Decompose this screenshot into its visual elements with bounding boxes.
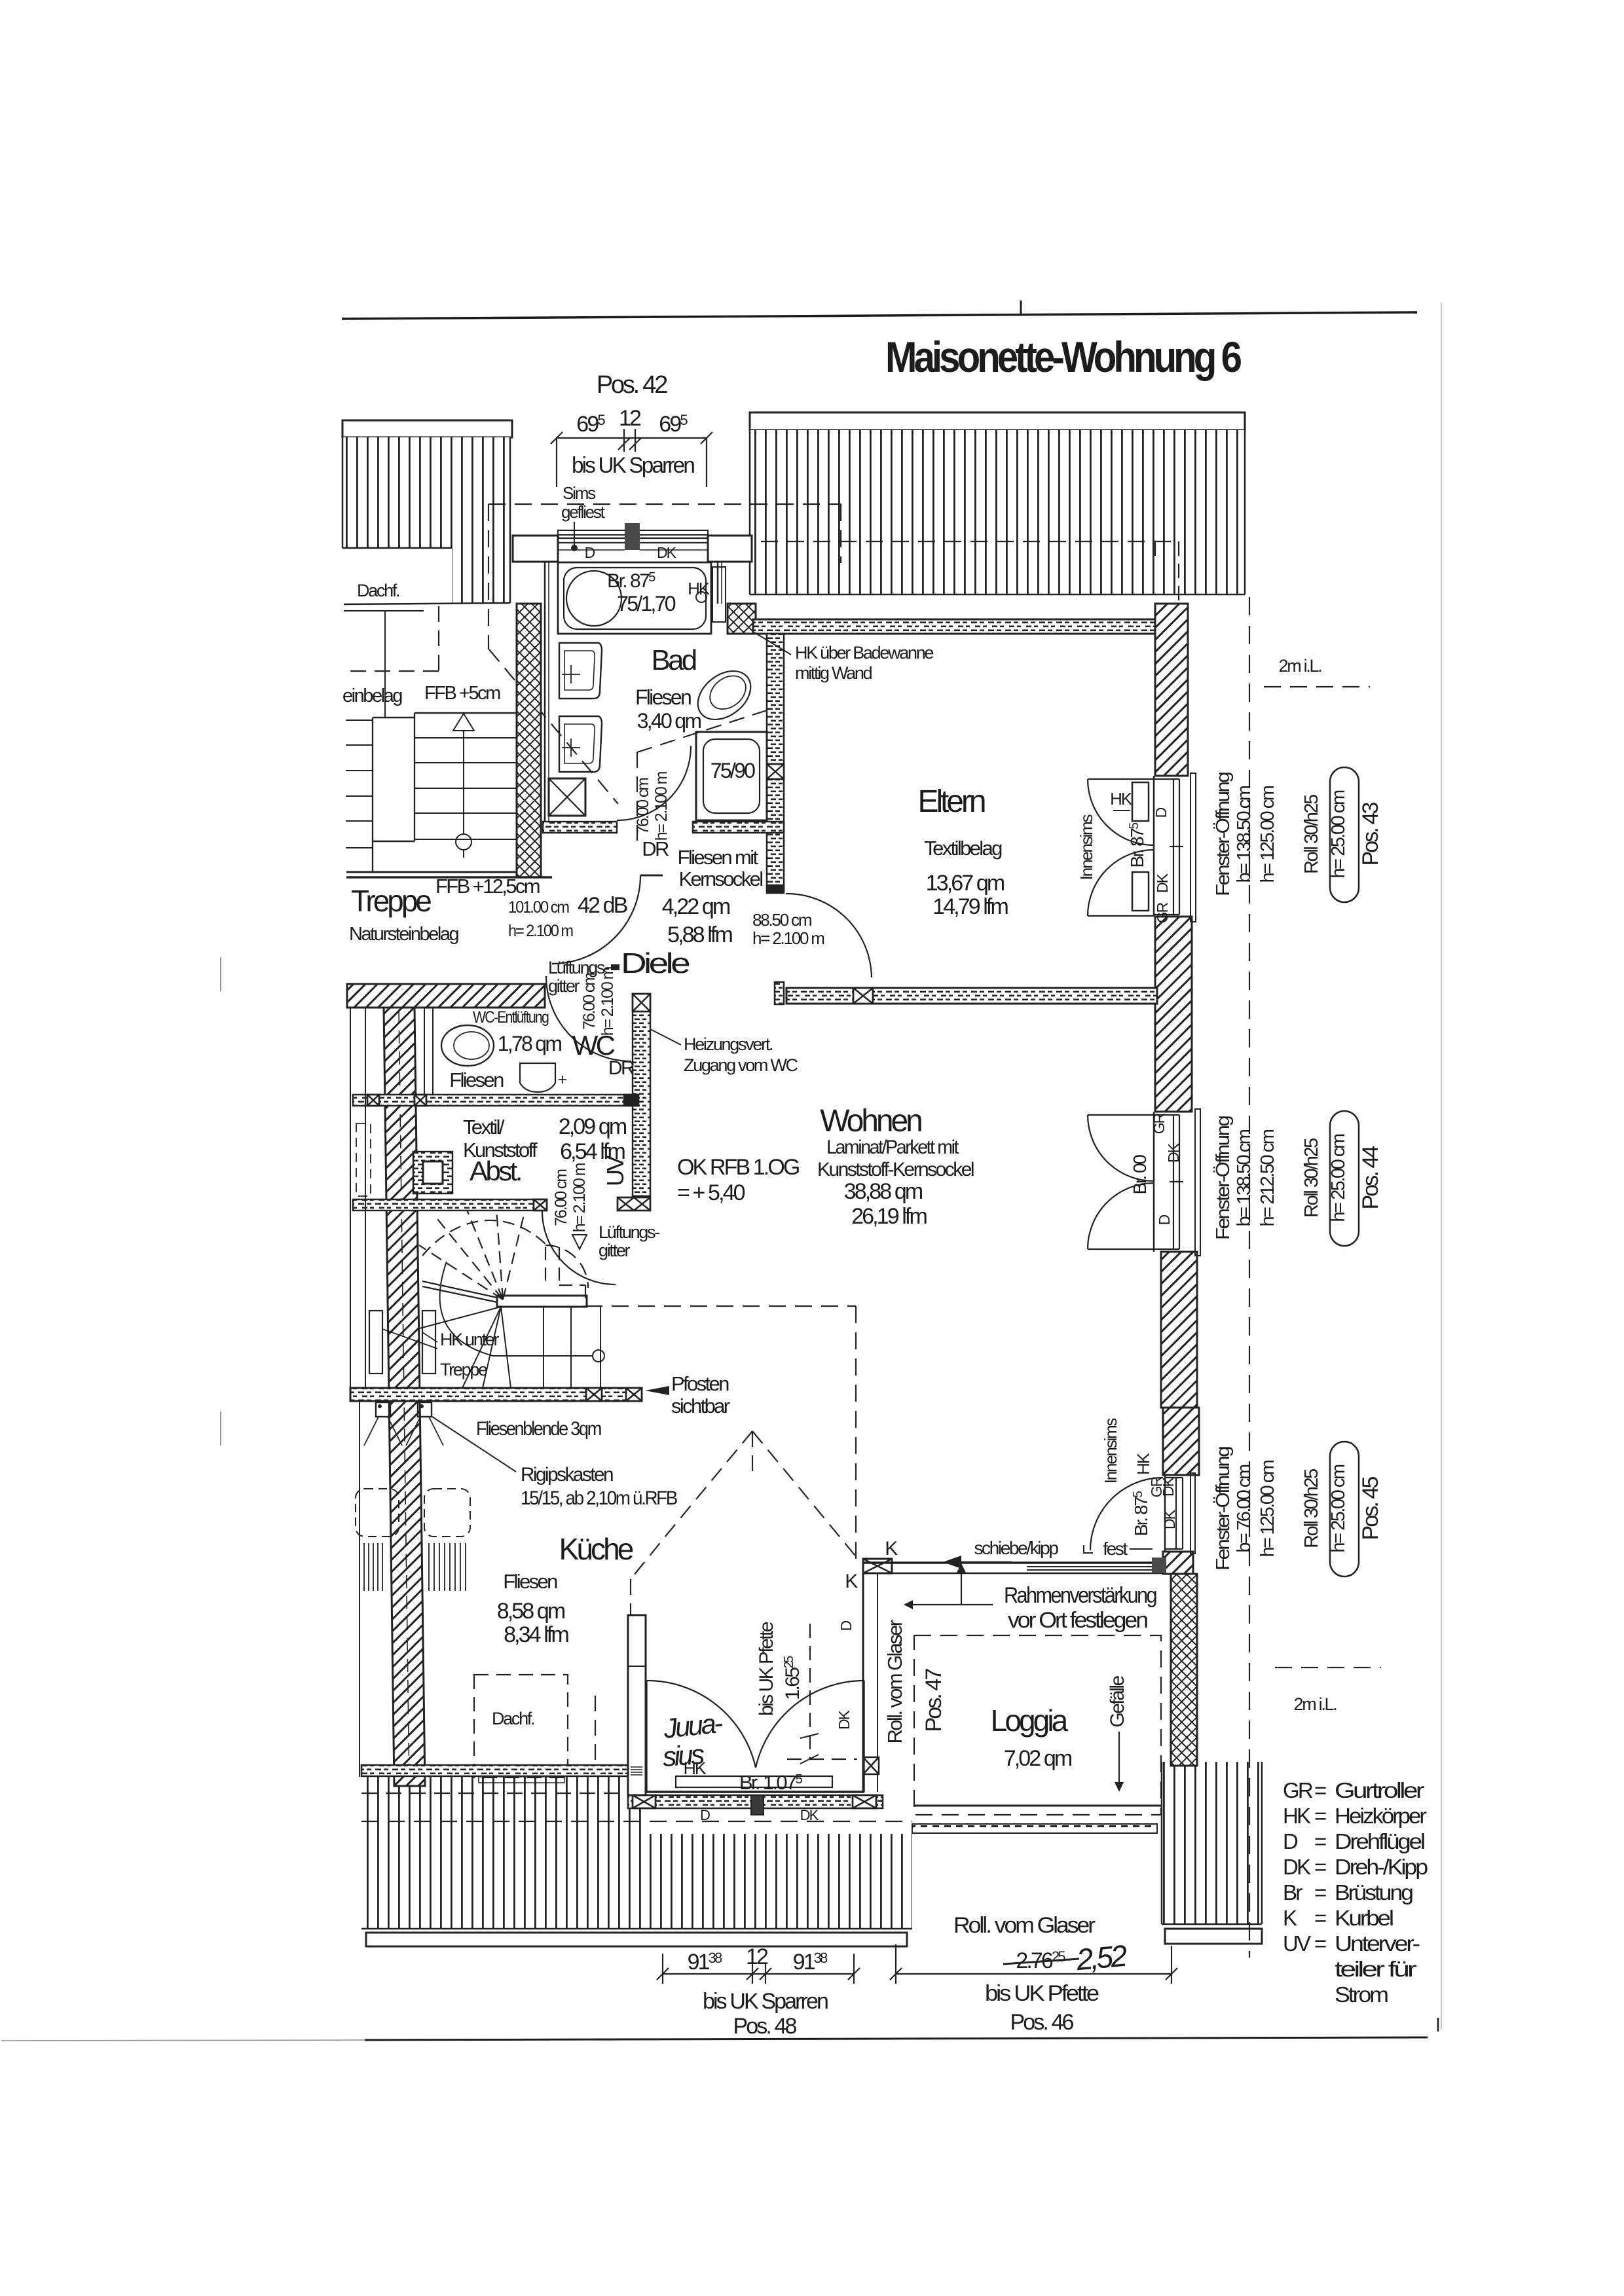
svg-text:Pos. 46: Pos. 46 — [1010, 2010, 1073, 2035]
wall stub left of Eltern door — [775, 982, 784, 1004]
svg-text:Fliesenblende 3qm: Fliesenblende 3qm — [476, 1418, 601, 1440]
WC left wall — [424, 1008, 425, 1095]
bathtub HK radiator — [712, 567, 726, 622]
svg-text:FFB +5cm: FFB +5cm — [424, 683, 500, 704]
bathtub outer — [558, 562, 711, 634]
svg-text:K: K — [885, 1538, 898, 1559]
roof area top-right: header bar — [750, 412, 1245, 430]
neighbour wall strips left — [350, 1008, 351, 1388]
svg-text:DK: DK — [657, 544, 677, 561]
svg-text:Küche: Küche — [559, 1532, 633, 1566]
wall right corner at Loggia — [1163, 1552, 1193, 1574]
dashed Loggia floor outline — [914, 1635, 1161, 1815]
svg-text:Loggia: Loggia — [991, 1704, 1069, 1738]
svg-text:Heizkörper: Heizkörper — [1335, 1804, 1427, 1828]
balcony door frame lines — [647, 1795, 864, 1796]
svg-text:teiler für: teiler für — [1335, 1957, 1417, 1981]
svg-text:76.00 cm: 76.00 cm — [634, 778, 652, 835]
svg-text:13,67 qm: 13,67 qm — [926, 871, 1005, 896]
svg-text:88.50 cm: 88.50 cm — [752, 910, 811, 930]
svg-text:Natursteinbelag: Natursteinbelag — [349, 924, 458, 945]
stairs lower winder treads — [417, 1307, 511, 1388]
svg-text:Dachf.: Dachf. — [492, 1709, 534, 1728]
svg-text:h= 125.00 cm: h= 125.00 cm — [1257, 786, 1278, 883]
wall hatched band above WC — [347, 984, 545, 1008]
Loggia sliding window glass — [1027, 1566, 1152, 1567]
dashed roof slope diagonals into Bad — [489, 649, 618, 804]
svg-text:Roll 30/h25: Roll 30/h25 — [1301, 795, 1322, 874]
svg-text:=: = — [1314, 1931, 1326, 1956]
svg-text:Eltern: Eltern — [918, 784, 985, 819]
wall right exterior between windows — [1155, 917, 1192, 1112]
window Pos 45 fest pane arc — [1090, 1478, 1163, 1550]
roof area bottom-left: vertical battens under kitchen — [361, 1777, 644, 1929]
svg-text:h= 2.100 m: h= 2.100 m — [508, 922, 573, 940]
svg-text:=: = — [1314, 1778, 1326, 1802]
sink WC — [520, 1063, 555, 1092]
wall Eltern top insulated band — [753, 619, 1155, 634]
svg-text:Gefälle: Gefälle — [1107, 1676, 1128, 1728]
svg-text:D: D — [1283, 1829, 1298, 1853]
svg-text:gefliest: gefliest — [561, 502, 606, 522]
stair bottom wall — [346, 871, 517, 873]
roof area top-right: vertical battens — [750, 430, 1245, 594]
svg-text:76.00 cm: 76.00 cm — [552, 1169, 570, 1226]
svg-text:2,09 qm: 2,09 qm — [559, 1114, 627, 1139]
svg-text:Textilbelag: Textilbelag — [924, 837, 1002, 860]
svg-text:h= 25.00 cm: h= 25.00 cm — [1328, 1465, 1349, 1553]
toilet Bad — [688, 661, 760, 729]
dashed 2m i.L. line top right — [1264, 686, 1370, 687]
svg-text:1,78 qm: 1,78 qm — [498, 1032, 562, 1055]
window Pos 44 Wohnen: frame — [1153, 1112, 1155, 1252]
svg-text:mittig Wand: mittig Wand — [795, 663, 872, 683]
Küche/Loggia wall — [862, 1573, 864, 1792]
window Pos 44 casement arcs — [1088, 1115, 1154, 1181]
svg-text:Pos. 48: Pos. 48 — [733, 2014, 796, 2039]
svg-text:DK: DK — [1160, 1476, 1177, 1497]
svg-text:Lüftungs-: Lüftungs- — [599, 1222, 659, 1242]
svg-text:8,58 qm: 8,58 qm — [497, 1599, 565, 1624]
svg-text:=: = — [1314, 1880, 1326, 1904]
stairs stringer to wall — [422, 1281, 497, 1298]
balcony door threshold — [646, 1791, 864, 1793]
svg-text:UV: UV — [602, 1156, 629, 1186]
svg-text:gitter: gitter — [599, 1241, 631, 1260]
Loggia top wall — [863, 1561, 1163, 1564]
svg-text:Treppe: Treppe — [351, 884, 431, 918]
stairs direction arrow — [463, 730, 464, 834]
stairs upper flight outline — [372, 718, 373, 872]
svg-text:bis UK Pfette: bis UK Pfette — [756, 1622, 777, 1716]
wall right exterior below Wohnen window — [1161, 1252, 1197, 1408]
svg-text:Innensims: Innensims — [1077, 814, 1096, 880]
svg-text:Wohnen: Wohnen — [820, 1104, 921, 1139]
svg-text:Roll 30/h25: Roll 30/h25 — [1301, 1469, 1322, 1548]
svg-text:26,19 lfm: 26,19 lfm — [851, 1204, 927, 1229]
svg-text:DK: DK — [1165, 1142, 1182, 1163]
svg-text:14,79 lfm: 14,79 lfm — [932, 894, 1008, 919]
svg-text:Fenster-Öffnung: Fenster-Öffnung — [1213, 1447, 1234, 1571]
svg-text:Br. 00: Br. 00 — [1130, 1155, 1150, 1195]
stairs lower flight landing bar — [497, 1296, 587, 1307]
svg-text:15/15, ab 2,10m ü.RFB: 15/15, ab 2,10m ü.RFB — [521, 1487, 677, 1509]
svg-text:fest: fest — [1103, 1539, 1128, 1559]
UV box in Abst — [413, 1152, 452, 1194]
wall Küche bottom insulated — [361, 1765, 645, 1776]
kitchen hob dashed right — [424, 1489, 470, 1537]
svg-text:Br. 1.075: Br. 1.075 — [739, 1771, 803, 1794]
svg-text:Fliesen: Fliesen — [449, 1068, 504, 1091]
svg-text:Br. 875: Br. 875 — [1127, 823, 1147, 868]
svg-text:Brüstung: Brüstung — [1335, 1880, 1413, 1904]
svg-text:DK: DK — [1283, 1855, 1311, 1879]
svg-text:D: D — [838, 1620, 855, 1631]
svg-text:b= 138.50 cm: b= 138.50 cm — [1234, 1129, 1255, 1226]
svg-text:Unterver-: Unterver- — [1335, 1931, 1420, 1956]
dashed long dimension line right (b=...) — [1249, 597, 1250, 1958]
roof bottom-right: footer bar — [1165, 1929, 1262, 1944]
roof area top-left: vertical battens right part — [452, 437, 510, 603]
svg-text:Rahmenverstärkung: Rahmenverstärkung — [1004, 1583, 1156, 1608]
svg-text:DK: DK — [1161, 1509, 1178, 1529]
wall Abst bottom insulated — [353, 1199, 547, 1211]
svg-text:DR: DR — [642, 837, 669, 860]
wall left exterior leaning hatched — [384, 1008, 425, 1786]
svg-text:=: = — [1314, 1855, 1326, 1879]
svg-text:Bad: Bad — [651, 644, 695, 676]
Loggia HK radiator — [676, 1776, 832, 1787]
wall Fliesenblende insulated — [350, 1388, 642, 1401]
shaft box with X in Bad — [549, 778, 585, 816]
svg-text:h= 25.00 cm: h= 25.00 cm — [1328, 790, 1349, 879]
wall right exterior above Pos45 window — [1163, 1408, 1199, 1475]
svg-text:b= 138.50 cm: b= 138.50 cm — [1234, 786, 1255, 883]
svg-text:38,88 qm: 38,88 qm — [844, 1179, 923, 1204]
wall WC/Abst separating insulated — [353, 1095, 638, 1106]
dimension Pos 42 top — [557, 437, 707, 439]
wall Bad bottom insulated right under shower — [693, 822, 784, 833]
svg-text:Drehflügel: Drehflügel — [1335, 1829, 1425, 1853]
faint scan line right — [1441, 302, 1442, 2030]
window Pos 43 HK radiator top — [1132, 782, 1149, 821]
neighbour area lines top-left — [344, 610, 424, 611]
svg-text:bis UK Sparren: bis UK Sparren — [572, 453, 694, 478]
roof area bottom-left: battens under balcony door — [635, 1834, 912, 1929]
svg-text:Sims: Sims — [563, 483, 596, 503]
wall corner block Bad/Eltern crosshatched — [728, 604, 756, 634]
dashed door dimension line Bad — [637, 752, 638, 845]
chimney pillar left of balcony door — [628, 1615, 646, 1795]
svg-text:=: = — [1314, 1906, 1326, 1930]
svg-text:GR: GR — [1283, 1778, 1313, 1802]
svg-text:OK RFB 1.OG: OK RFB 1.OG — [677, 1155, 799, 1180]
kitchen hob dashed left — [356, 1489, 399, 1537]
svg-text:Kurbel: Kurbel — [1335, 1906, 1393, 1930]
svg-text:D: D — [585, 544, 595, 561]
post visible left — [376, 1402, 390, 1417]
Bad room right wall line — [717, 562, 719, 604]
roof bottom-left: footer bar — [366, 1933, 907, 1946]
svg-text:D: D — [1156, 1214, 1173, 1225]
door arc Abst — [542, 1211, 616, 1285]
svg-text:76.00 cm: 76.00 cm — [580, 973, 599, 1030]
svg-text:Fliesen: Fliesen — [635, 685, 691, 709]
post visible right — [418, 1402, 432, 1417]
svg-text:Kernsockel: Kernsockel — [678, 867, 762, 890]
dashed cupboard outline Abst — [356, 1123, 371, 1196]
svg-text:Juua-: Juua- — [661, 1707, 724, 1744]
svg-text:K: K — [845, 1571, 858, 1592]
dashed stair well outline — [545, 1245, 588, 1288]
svg-text:D: D — [700, 1807, 710, 1823]
svg-text:h= 2.100 m: h= 2.100 m — [652, 771, 671, 841]
tick on top border — [1020, 301, 1022, 316]
svg-text:h= 2.100 m: h= 2.100 m — [752, 928, 824, 948]
svg-text:= + 5,40: = + 5,40 — [677, 1180, 745, 1205]
window Bad top: outer sill — [558, 530, 708, 535]
svg-text:Fliesen: Fliesen — [503, 1570, 557, 1593]
svg-text:DR: DR — [608, 1057, 635, 1079]
dimension Pos 46 bottom right — [896, 1973, 1172, 1975]
svg-text:=: = — [1314, 1804, 1326, 1828]
Küche outer left edge — [359, 1401, 360, 1777]
dashed roof ridge lines kitchen — [752, 1431, 858, 1559]
wall left crosshatch beside Bad — [517, 604, 541, 877]
dashed corner left of stairs — [346, 606, 439, 671]
page top border line — [342, 312, 1417, 319]
svg-text:Zugang vom WC: Zugang vom WC — [684, 1055, 798, 1075]
svg-text:einbelag: einbelag — [342, 685, 402, 706]
svg-text:sichtbar: sichtbar — [671, 1394, 730, 1417]
svg-text:Textil/: Textil/ — [463, 1116, 505, 1139]
balcony door sill band — [628, 1795, 883, 1808]
svg-text:Roll 30/h25: Roll 30/h25 — [1301, 1139, 1322, 1218]
svg-text:HK: HK — [1283, 1804, 1311, 1828]
svg-text:vor Ort festlegen: vor Ort festlegen — [1008, 1608, 1147, 1633]
svg-text:HK: HK — [1110, 789, 1133, 809]
roof area top-left: header bar — [342, 420, 512, 437]
svg-text:8,34 lfm: 8,34 lfm — [504, 1622, 568, 1647]
svg-text:h= 2.100 m: h= 2.100 m — [599, 966, 617, 1036]
window Pos 45 corner: frame — [1164, 1475, 1166, 1552]
svg-text:4,22 qm: 4,22 qm — [662, 894, 730, 919]
svg-text:bis UK Sparren: bis UK Sparren — [703, 1989, 828, 2014]
svg-text:Abst.: Abst. — [470, 1156, 521, 1186]
svg-text:HK: HK — [688, 579, 710, 598]
page bottom border line — [1, 2040, 365, 2041]
bathtub inner — [564, 568, 706, 629]
svg-text:Maisonette-Wohnung 6: Maisonette-Wohnung 6 — [885, 333, 1241, 381]
wall Loggia right crosshatched — [1171, 1574, 1197, 1766]
svg-text:Br. 875: Br. 875 — [607, 570, 655, 592]
dashed 2m i.L. line bottom right — [1275, 1667, 1381, 1668]
HK marker circles Eltern window — [1113, 810, 1130, 811]
svg-text:Br: Br — [1283, 1880, 1302, 1904]
door arc apartment entry — [552, 875, 640, 964]
sink Bad upper — [559, 643, 602, 699]
svg-text:Fenster-Öffnung: Fenster-Öffnung — [1213, 773, 1234, 896]
svg-text:gitter: gitter — [548, 976, 580, 996]
HK radiators under stairs flanking wall — [369, 1311, 382, 1374]
svg-text:Gurtroller: Gurtroller — [1335, 1778, 1424, 1802]
svg-text:Diele: Diele — [621, 947, 690, 979]
svg-text:Pos. 43: Pos. 43 — [1358, 802, 1383, 866]
roof area top-left: vertical battens left part — [342, 437, 452, 548]
svg-text:UV: UV — [1283, 1931, 1311, 1956]
dashed lines crossing bottom roof — [361, 1793, 644, 1794]
svg-text:DK: DK — [1154, 873, 1171, 893]
bathtub head curve — [566, 571, 621, 626]
svg-text:3,40 qm: 3,40 qm — [637, 709, 701, 733]
svg-text:FFB +12,5cm: FFB +12,5cm — [435, 875, 540, 898]
svg-text:Innensims: Innensims — [1101, 1417, 1120, 1484]
svg-text:Fliesen mit: Fliesen mit — [678, 846, 759, 869]
door arc Bad — [617, 746, 691, 820]
toilet WC — [441, 1025, 494, 1066]
svg-text:Heizungsvert.: Heizungsvert. — [684, 1034, 773, 1054]
door arc Eltern — [786, 894, 872, 977]
svg-text:Roll. vom Glaser: Roll. vom Glaser — [883, 1620, 906, 1743]
svg-text:2,52: 2,52 — [1075, 1939, 1128, 1977]
svg-text:HK: HK — [684, 1758, 707, 1778]
svg-text:GR: GR — [1154, 902, 1171, 923]
svg-text:Pfosten: Pfosten — [671, 1372, 729, 1395]
window Bad top: Sims block — [625, 523, 640, 550]
stairs handrail curve — [440, 1262, 493, 1356]
shower tray 75/90 — [696, 732, 767, 820]
svg-text:7,02 qm: 7,02 qm — [1004, 1746, 1072, 1771]
kitchen grille left — [364, 1543, 382, 1591]
svg-text:101.00 cm: 101.00 cm — [508, 898, 569, 917]
dashed 2m height line around stair/kitchen — [585, 1306, 856, 1561]
roof area bottom-right (right of Loggia) — [1162, 1762, 1262, 1924]
door arc WC — [546, 976, 631, 1061]
svg-text:12: 12 — [746, 1944, 768, 1969]
svg-text:b= 76.00 cm: b= 76.00 cm — [1234, 1465, 1255, 1553]
wall pillar left of Bad window — [513, 536, 558, 562]
svg-text:D: D — [1153, 807, 1170, 818]
svg-text:Laminat/Parkett mit: Laminat/Parkett mit — [826, 1137, 959, 1158]
svg-text:42 dB: 42 dB — [578, 893, 627, 918]
svg-text:Pos. 47: Pos. 47 — [921, 1668, 946, 1732]
svg-text:Fenster-Öffnung: Fenster-Öffnung — [1213, 1116, 1234, 1240]
svg-text:12: 12 — [619, 406, 641, 431]
window Pos 43 Eltern: frame — [1153, 776, 1155, 917]
svg-text:HK über Badewanne: HK über Badewanne — [795, 643, 933, 663]
svg-text:Dachf.: Dachf. — [357, 581, 399, 600]
svg-text:Strom: Strom — [1335, 1982, 1388, 2007]
dashed Dachf dormer box kitchen — [474, 1675, 568, 1777]
svg-text:Pos. 45: Pos. 45 — [1358, 1476, 1383, 1540]
svg-text:DK: DK — [836, 1709, 853, 1730]
wall Eltern bottom insulated — [786, 988, 1157, 1004]
svg-text:Roll. vom Glaser: Roll. vom Glaser — [953, 1913, 1096, 1938]
svg-text:HK unter: HK unter — [440, 1330, 499, 1349]
dashed kitchen door dimension line — [809, 1624, 811, 1760]
Loggia decking strip — [912, 1824, 1157, 1833]
kitchen grille right — [429, 1543, 466, 1591]
window Bad top: glass lines — [558, 538, 708, 539]
dashed upper stair flight radiating steps — [419, 1209, 524, 1300]
svg-text:DK: DK — [800, 1807, 819, 1823]
svg-text:Pos. 42: Pos. 42 — [597, 371, 667, 399]
wall WC right insulated — [633, 994, 650, 1196]
dashed Sims level line top — [489, 503, 841, 505]
window Pos 43 HK radiator bottom — [1132, 872, 1149, 911]
svg-text:K: K — [1283, 1906, 1297, 1930]
svg-text:Rigipskasten: Rigipskasten — [521, 1464, 613, 1485]
step in front of balcony door — [479, 1777, 564, 1783]
svg-text:75/1,70: 75/1,70 — [617, 592, 676, 615]
svg-text:HK: HK — [1134, 1452, 1153, 1475]
svg-text:GR: GR — [1151, 1113, 1168, 1134]
svg-text:Treppe: Treppe — [440, 1360, 487, 1379]
svg-text:2m i.L.: 2m i.L. — [1279, 656, 1322, 676]
svg-text:Pos. 44: Pos. 44 — [1358, 1146, 1383, 1209]
svg-text:h= 25.00 cm: h= 25.00 cm — [1328, 1134, 1349, 1222]
svg-text:h= 212.50 cm: h= 212.50 cm — [1257, 1129, 1278, 1226]
svg-text:WC-Entlüftung: WC-Entlüftung — [473, 1008, 549, 1027]
svg-text:h= 2.100 m: h= 2.100 m — [570, 1163, 589, 1232]
wall pillar right of Bad window — [708, 536, 752, 562]
wall right exterior above Eltern window — [1155, 604, 1188, 776]
svg-text:Kunststoff-Kernsockel: Kunststoff-Kernsockel — [817, 1159, 974, 1180]
svg-text:5,88 lfm: 5,88 lfm — [667, 922, 732, 947]
svg-text:=: = — [1314, 1829, 1326, 1853]
svg-text:Dreh-/Kipp: Dreh-/Kipp — [1335, 1855, 1428, 1879]
dimension Pos 48 bottom left — [663, 1973, 854, 1975]
Loggia bottom edge — [914, 1805, 1161, 1807]
Bad room left wall line — [544, 562, 546, 822]
svg-text:2m i.L.: 2m i.L. — [1294, 1694, 1337, 1714]
svg-text:schiebe/kipp: schiebe/kipp — [974, 1538, 1058, 1558]
wall Bad/Eltern vertical insulated — [767, 634, 784, 891]
fold marks left — [220, 957, 221, 991]
sink Bad lower — [559, 716, 602, 772]
window Pos 43 casement arcs — [1088, 779, 1154, 845]
svg-text:bis UK Pfette: bis UK Pfette — [985, 1981, 1099, 2006]
stairs winder treads left — [346, 720, 373, 848]
svg-text:h= 125.00 cm: h= 125.00 cm — [1257, 1460, 1278, 1557]
svg-text:75/90: 75/90 — [710, 759, 755, 782]
wall centerline dashed — [399, 1010, 409, 1785]
stairs treads — [415, 738, 517, 839]
wall Bad bottom insulated left — [543, 822, 617, 833]
door arcs balcony double door — [647, 1681, 756, 1768]
